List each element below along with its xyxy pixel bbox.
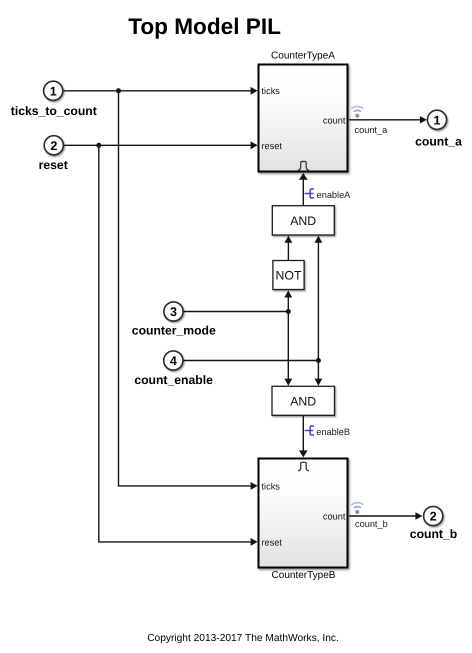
wire: reset to CounterTypeA reset [64,144,252,146]
arrowhead into CounterTypeB reset [251,538,258,546]
svg-text:count_a: count_a [355,125,389,135]
svg-text:1: 1 [434,113,441,127]
wire: counter_mode horizontal [183,311,288,313]
signal logging badge on count_b [351,503,363,514]
svg-text:NOT: NOT [276,269,302,283]
wire: count_enable up to AND1 right input [317,241,319,361]
signal logging badge on count_a [351,106,363,117]
arrowhead into CounterTypeB trigger [299,450,308,457]
svg-text:3: 3 [170,305,177,319]
svg-text:CounterTypeA: CounterTypeA [271,50,335,61]
svg-text:CounterTypeB: CounterTypeB [272,570,336,581]
wire: ticks_to_count to CounterTypeA ticks [64,90,252,92]
svg-text:count: count [323,115,346,125]
svg-text:enableB: enableB [316,427,350,437]
enableA storage-class icon [305,189,315,198]
wire: count_enable horizontal [183,360,318,362]
svg-text:Copyright 2013-2017 The MathWo: Copyright 2013-2017 The MathWorks, Inc. [147,633,339,644]
CounterTypeA trigger pulse icon [299,162,309,170]
svg-text:reset: reset [262,141,283,151]
arrowhead into AND1 right input [315,236,323,243]
wire: CounterTypeA count output to outport count_a [349,119,421,121]
arrowhead into NOT [284,290,292,297]
inport 1 [44,81,63,100]
arrowhead into outport count_b [415,512,422,519]
wire: AND1 output up to CounterTypeA trigger [302,179,304,206]
svg-text:2: 2 [50,139,57,153]
arrowhead into CounterTypeA trigger [299,173,308,180]
arrowhead into AND2 right input [315,379,323,386]
wire: counter_mode down to AND2 [287,312,289,381]
svg-text:ticks_to_count: ticks_to_count [11,104,97,118]
wire: CounterTypeB count output to outport count_b [349,515,417,517]
arrowhead into CounterTypeB ticks [251,482,258,490]
svg-text:2: 2 [430,510,437,524]
arrowhead into outport count_a [420,116,427,123]
junction on reset wire [96,143,101,148]
junction on counter_mode wire [286,309,291,314]
logic block AND (lower) U-AND2 [272,386,335,415]
svg-text:ticks: ticks [262,482,281,492]
inport 2 [44,136,63,155]
arrowhead into CounterTypeA ticks [251,87,258,95]
outport 2 count_b [424,506,443,525]
logic block AND (upper) U-AND1 [272,206,334,235]
svg-text:counter_mode: counter_mode [132,324,216,338]
svg-text:AND: AND [290,214,316,228]
svg-text:ticks: ticks [262,86,281,96]
wire: count_enable down to AND2 right input [317,361,319,381]
junction on ticks wire [116,88,121,93]
CounterTypeB trigger pulse icon [299,462,309,470]
svg-text:count_enable: count_enable [134,373,213,387]
svg-text:AND: AND [290,395,316,409]
wire: reset branch down to CounterTypeB reset [99,145,252,542]
enableB storage-class icon [305,426,315,435]
svg-text:reset: reset [39,158,68,172]
outport 1 count_a [427,110,446,129]
inport 4 [164,351,183,370]
wire: ticks branch down to CounterTypeB ticks [119,91,252,486]
svg-text:count: count [323,512,346,522]
svg-text:count_b: count_b [410,527,457,541]
junction on count_enable wire [316,358,321,363]
svg-text:enableA: enableA [317,190,352,200]
svg-text:reset: reset [262,537,283,547]
subsystem CounterTypeB [259,459,348,568]
svg-text:count_b: count_b [355,519,388,529]
svg-text:4: 4 [170,354,177,368]
svg-text:Top Model PIL: Top Model PIL [128,14,281,39]
wire: NOT output up to AND1 left input [287,241,289,260]
arrowhead into AND1 left input [285,236,293,243]
arrowhead into CounterTypeA reset [251,141,258,149]
subsystem CounterTypeA [259,65,348,172]
arrowhead into AND2 left input [284,379,292,386]
wire: AND2 output down to CounterTypeB trigger [302,416,304,452]
svg-text:1: 1 [50,84,57,98]
svg-text:count_a: count_a [415,135,462,149]
inport 3 [164,302,183,321]
wire: counter_mode up to NOT [287,296,289,312]
logic block NOT [273,261,304,290]
